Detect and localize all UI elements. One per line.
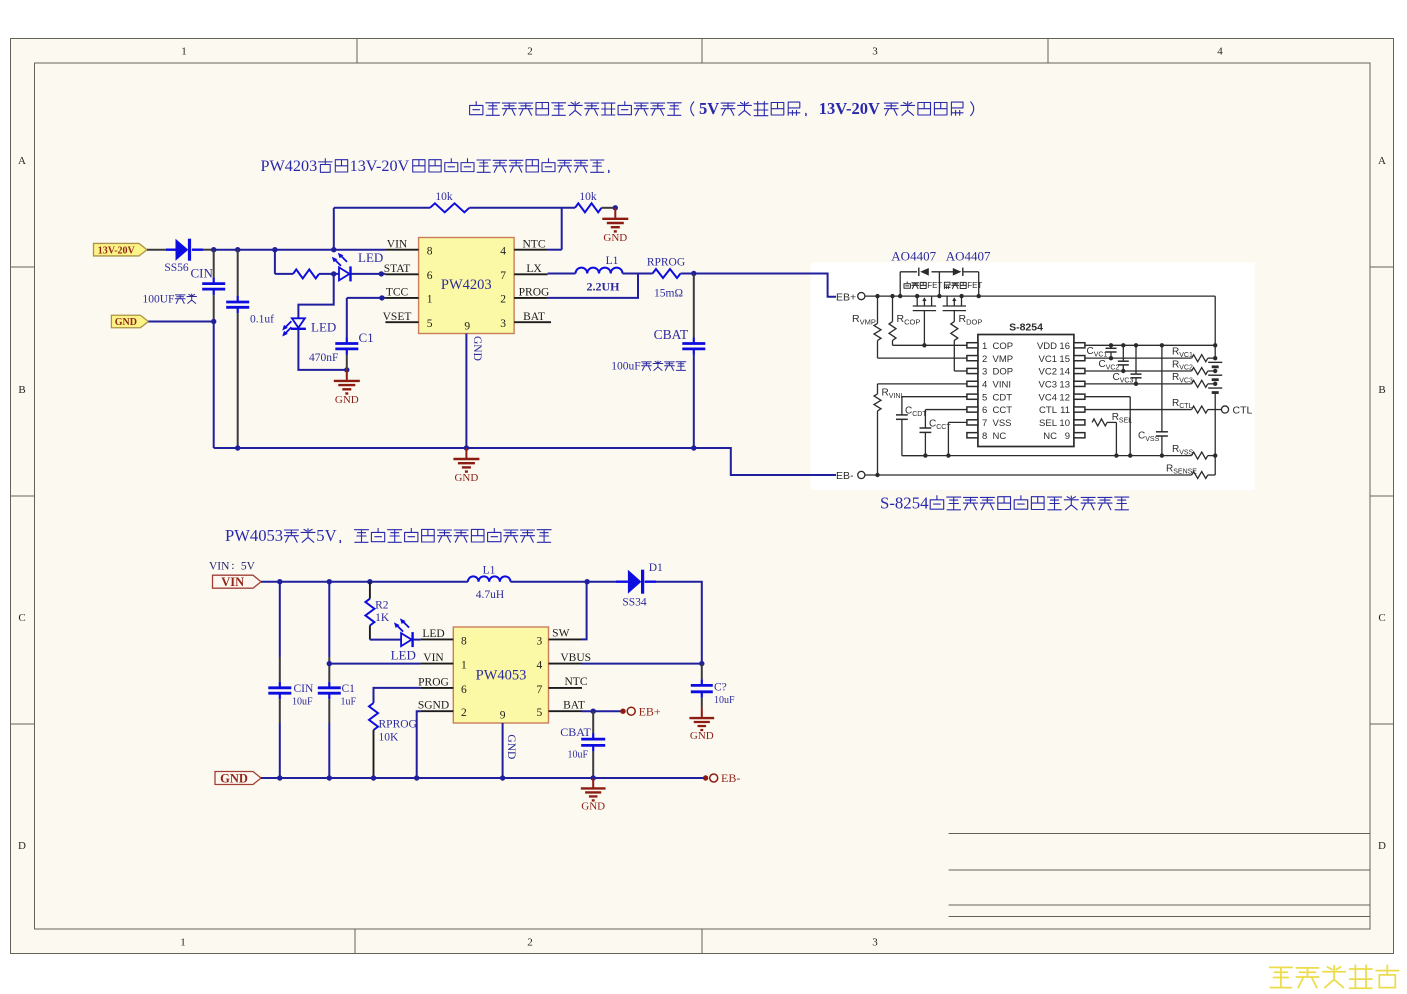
capacitor CVC1 [1087, 345, 1117, 360]
svg-text:15: 15 [1059, 354, 1070, 365]
svg-text:VC1: VC1 [1039, 354, 1057, 365]
svg-text:CTL: CTL [1233, 404, 1253, 416]
wire VBUS to node [582, 663, 702, 665]
svg-text:C1: C1 [342, 683, 356, 695]
PW4203 circuit subtitle [261, 157, 610, 175]
resistor RVINI [874, 384, 967, 477]
svg-text:NC: NC [1043, 431, 1057, 442]
svg-text:VIN: VIN [221, 575, 244, 589]
svg-text:100uF: 100uF [611, 361, 640, 373]
resistor RVC1 [1085, 347, 1217, 362]
svg-text:10uF: 10uF [714, 695, 735, 706]
svg-text:VBUS: VBUS [560, 652, 591, 664]
label 100uF电解电容 [611, 361, 686, 373]
body diode (charge FET) [919, 268, 929, 276]
svg-text:14: 14 [1059, 367, 1070, 378]
svg-text:GND: GND [581, 800, 605, 812]
wire resistor to LED [319, 271, 339, 276]
svg-text:2: 2 [500, 294, 506, 306]
svg-text:1: 1 [180, 937, 186, 949]
op-amp U1 PW4203 [419, 238, 514, 334]
svg-text:7: 7 [500, 270, 506, 282]
wire RPROG to BAT node [681, 271, 697, 276]
label 100UF电解 [143, 294, 197, 306]
wire STAT node to second LED [298, 274, 333, 318]
wire D1 to VBUS node [656, 582, 705, 667]
label 470nF [309, 352, 338, 364]
svg-text:11: 11 [1060, 405, 1070, 416]
svg-text:3: 3 [537, 635, 543, 647]
svg-text:VIN: VIN [423, 652, 444, 664]
svg-text:DOP: DOP [993, 367, 1014, 378]
resistor R2 1K [365, 582, 389, 640]
svg-text:VSS: VSS [993, 418, 1012, 429]
svg-text:VSET: VSET [383, 311, 412, 323]
PW4203 left pins VIN STAT TCC VSET [383, 238, 433, 330]
svg-text:PROG: PROG [418, 676, 449, 688]
svg-text:7: 7 [982, 418, 987, 429]
wire BAT to EB+ [582, 709, 626, 714]
wire CIN down to ground rail [213, 322, 215, 449]
label 0.1uf [250, 314, 274, 326]
wire C1 to TCC pin [347, 295, 386, 300]
capacitor CCDT [896, 397, 967, 456]
capacitor C1 [335, 298, 373, 370]
svg-text:CIN: CIN [191, 266, 214, 281]
svg-text:B: B [1378, 384, 1385, 396]
battery rail right [1213, 296, 1217, 358]
svg-text:13V-20V: 13V-20V [98, 245, 136, 256]
svg-text:GND: GND [471, 336, 483, 361]
resistor RVSS [1172, 444, 1217, 459]
svg-text:GND: GND [335, 394, 359, 406]
svg-text:PROG: PROG [519, 287, 550, 299]
body diode (discharge FET) [953, 268, 963, 276]
schematic main title [470, 99, 974, 118]
wire 0.1uf to rail junction [235, 445, 240, 450]
svg-text:CBAT: CBAT [654, 327, 689, 342]
svg-text:PW4053: PW4053 [476, 668, 527, 684]
transistor Q1 charge FET [913, 296, 936, 311]
PW4053 right pins SW VBUS NTC BAT [537, 628, 591, 720]
S-8254 right pins 9-16 [1037, 341, 1085, 442]
svg-text:9: 9 [464, 320, 470, 332]
svg-text:PW4053: PW4053 [225, 526, 283, 545]
resistor RSENSE [1166, 463, 1215, 478]
wire LED to STAT pin [352, 271, 386, 276]
ground (C1) [334, 370, 360, 406]
node CTL output [1221, 404, 1252, 416]
labels AO4407 AO4407 [891, 249, 991, 264]
resistor RVMP [852, 296, 967, 358]
svg-text:FET: FET [927, 281, 942, 290]
capacitor CBAT [654, 274, 706, 449]
LED (power) [282, 318, 336, 336]
svg-text:1: 1 [427, 294, 433, 306]
svg-text:470nF: 470nF [309, 352, 338, 364]
LED (PW4053) [391, 618, 416, 662]
svg-text:EB-: EB- [836, 470, 854, 482]
svg-text:9: 9 [1065, 431, 1070, 442]
svg-text:COP: COP [993, 341, 1014, 352]
wire VIN node down to STAT resistor [275, 250, 293, 274]
inductor L1 2.2UH [576, 255, 623, 294]
svg-text:SEL: SEL [1039, 418, 1057, 429]
wire PROG riser [374, 688, 421, 703]
resistor RPROG 10K [369, 703, 417, 778]
svg-text:LED: LED [358, 250, 383, 265]
resistor 10k (NTC pulldown) [575, 191, 602, 212]
wire VSS down [946, 422, 967, 457]
svg-text:A: A [1378, 155, 1386, 167]
wire Q1 gate to COP [923, 311, 925, 346]
PW4053 left pins LED VIN PROG SGND [418, 628, 467, 719]
svg-text:TCC: TCC [386, 287, 409, 299]
S-8254 left pins 1-8 [967, 341, 1013, 442]
resistor RVC3 [1085, 372, 1217, 387]
svg-text:2.2UH: 2.2UH [587, 280, 621, 294]
wire VC4 drop [1085, 397, 1132, 458]
capacitor C? [691, 664, 735, 708]
watermark 夸克微科技 [1270, 965, 1399, 988]
node EB- (PW4053) [710, 771, 741, 785]
svg-text:4: 4 [982, 379, 987, 390]
svg-text:C: C [18, 612, 25, 624]
svg-text:CDT: CDT [993, 392, 1013, 403]
wire SGND drop [417, 711, 421, 778]
svg-text:6: 6 [427, 270, 433, 282]
capacitor CVSS [1138, 345, 1168, 458]
node EB- [836, 470, 1192, 482]
svg-text:EB+: EB+ [836, 291, 856, 303]
svg-text:5: 5 [982, 392, 987, 403]
resistor RSEL [1092, 412, 1132, 458]
capacitor 0.1uf [226, 250, 249, 448]
svg-text:SGND: SGND [418, 700, 449, 712]
svg-text:13V-20V: 13V-20V [819, 99, 880, 118]
wire 10k to GND [602, 205, 619, 210]
capacitor CVC3 [1113, 345, 1142, 386]
svg-text:4: 4 [537, 660, 543, 672]
svg-text:D: D [18, 840, 26, 852]
inductor L1 4.7uH [468, 565, 511, 602]
svg-text:S-8254: S-8254 [880, 494, 929, 513]
wire LX to L1 [548, 273, 576, 275]
svg-text:GND: GND [690, 730, 714, 742]
svg-text:5V: 5V [241, 561, 256, 573]
wire LED to C1 node [298, 330, 349, 373]
svg-text:2: 2 [527, 46, 533, 58]
svg-text:GND: GND [220, 772, 248, 786]
svg-text:GND: GND [505, 734, 517, 759]
wire VIN rail [261, 579, 468, 584]
svg-text:S-8254: S-8254 [1009, 322, 1043, 334]
svg-text:STAT: STAT [384, 263, 411, 275]
node EB+ (PW4053) [627, 704, 661, 718]
caption S-8254 [880, 494, 1129, 513]
label VIN 5V [209, 561, 256, 573]
svg-text:NC: NC [993, 431, 1007, 442]
svg-text:1: 1 [181, 46, 187, 58]
svg-text:VC2: VC2 [1039, 367, 1057, 378]
svg-text:VIN: VIN [209, 561, 230, 573]
svg-text:3: 3 [872, 937, 878, 949]
svg-text:VMP: VMP [993, 354, 1014, 365]
resistor RVC2 [1085, 359, 1217, 374]
ground (NTC) [602, 208, 628, 244]
wire LED to LED pin [414, 639, 421, 641]
svg-text:VC3: VC3 [1039, 379, 1057, 390]
wire diode to VIN node [203, 249, 385, 251]
svg-text:CIN: CIN [294, 683, 315, 695]
svg-text:CCT: CCT [993, 405, 1013, 416]
svg-text:4: 4 [1217, 46, 1223, 58]
svg-text:GND: GND [454, 472, 478, 484]
wire L1 to RPROG [623, 273, 653, 275]
node VIN junctions [211, 247, 336, 252]
battery cells [1208, 362, 1222, 475]
wire NTC riser [548, 249, 562, 251]
svg-text:C?: C? [714, 682, 727, 694]
svg-text:VC4: VC4 [1039, 392, 1057, 403]
svg-text:0.1uf: 0.1uf [250, 314, 274, 326]
svg-text:13: 13 [1059, 379, 1070, 390]
ground rail (PW4203) [214, 445, 697, 450]
wire 13V-20V to diode [147, 249, 166, 251]
svg-text:EB-: EB- [721, 771, 740, 785]
svg-text:16: 16 [1059, 341, 1070, 352]
wire 10k to NTC riser [469, 208, 575, 250]
capacitor CBAT (PW4053) [560, 711, 605, 778]
wire GND flag to CIN [148, 319, 216, 324]
op-amp U2 S-8254 [978, 322, 1074, 447]
capacitor CIN [191, 250, 226, 322]
wire VIN node up to feedback [334, 208, 430, 250]
wire VIN pin [327, 661, 421, 666]
capacitor CIN (PW4053) [268, 582, 314, 778]
svg-text:10uF: 10uF [292, 697, 313, 708]
svg-text:BAT: BAT [523, 311, 545, 323]
svg-text:3: 3 [500, 318, 506, 330]
svg-text:LED: LED [311, 320, 336, 335]
svg-text:4.7uH: 4.7uH [476, 589, 504, 601]
LED (STAT) [332, 250, 383, 281]
svg-text:RPROG: RPROG [647, 257, 685, 269]
resistor 10k (feedback) [430, 191, 469, 212]
svg-text:5: 5 [427, 318, 433, 330]
svg-text:VDD: VDD [1037, 341, 1057, 352]
op-amp U3 PW4053 [453, 627, 548, 723]
svg-text:LED: LED [391, 648, 416, 663]
wire PROG riser [548, 274, 638, 298]
svg-text:FET: FET [967, 281, 982, 290]
svg-text:1: 1 [982, 341, 987, 352]
PW4053 circuit title [225, 526, 551, 545]
diode SS56 [164, 239, 203, 274]
svg-text:D1: D1 [649, 562, 663, 574]
resistor RCOP [889, 296, 967, 347]
svg-text:SS34: SS34 [622, 597, 647, 609]
transistor Q2 discharge FET [943, 296, 966, 311]
svg-text:2: 2 [461, 707, 467, 719]
svg-text:100UF: 100UF [143, 294, 175, 306]
svg-text:RPROG: RPROG [379, 719, 417, 731]
svg-text:NTC: NTC [523, 238, 546, 250]
svg-text:1: 1 [461, 660, 467, 672]
svg-text:5: 5 [537, 707, 543, 719]
svg-text:2: 2 [982, 354, 987, 365]
svg-text:13V-20V: 13V-20V [350, 157, 410, 175]
ground (rail) [453, 448, 479, 484]
svg-text:8: 8 [982, 431, 987, 442]
S-8254 protection circuit block (white panel) [811, 263, 1255, 491]
wire VDD line [1085, 343, 1215, 347]
PW4203 right pins NTC LX PROG BAT [500, 238, 551, 330]
wire L1 to D1 [511, 579, 617, 584]
svg-text:LX: LX [526, 263, 542, 275]
svg-text:5V: 5V [699, 99, 719, 118]
wire rail to EB- [694, 448, 836, 475]
svg-text:D: D [1378, 840, 1386, 852]
node EB+ [836, 291, 1215, 303]
PW4203 pin 9 GND [464, 320, 483, 448]
svg-text:SS56: SS56 [164, 262, 189, 274]
net label GND flag [111, 315, 148, 328]
resistor RCTL [1085, 398, 1221, 413]
svg-text:6: 6 [461, 684, 467, 696]
wire SW riser [582, 582, 587, 640]
svg-text:10: 10 [1059, 418, 1070, 429]
svg-text:1K: 1K [375, 612, 390, 624]
svg-text:3: 3 [872, 46, 878, 58]
wire BAT node to EB+ [694, 274, 836, 297]
svg-text:AO4407: AO4407 [946, 249, 991, 264]
svg-text:12: 12 [1059, 392, 1070, 403]
svg-text:PW4203: PW4203 [261, 157, 318, 175]
svg-text:L1: L1 [483, 565, 496, 577]
svg-text:LED: LED [422, 628, 444, 640]
ground rail (PW4053) [261, 775, 708, 780]
ground (CBAT rail) [581, 778, 606, 812]
svg-text:CBAT: CBAT [560, 725, 591, 739]
svg-text:VINI: VINI [993, 379, 1011, 390]
svg-text:R2: R2 [375, 600, 389, 612]
svg-text:6: 6 [982, 405, 987, 416]
svg-text:GND: GND [115, 317, 137, 328]
svg-text:10k: 10k [579, 191, 597, 203]
svg-text:5V: 5V [316, 526, 336, 545]
svg-text:C: C [1378, 612, 1385, 624]
diode D1 SS34 [616, 562, 663, 609]
svg-text:10K: 10K [379, 732, 400, 744]
svg-text:CTL: CTL [1039, 405, 1057, 416]
svg-text:8: 8 [427, 246, 433, 258]
resistor (STAT series) [293, 269, 319, 278]
resistor RPROG 15mohm [647, 257, 685, 300]
resistor RDOP [951, 311, 983, 371]
svg-text:C1: C1 [359, 330, 374, 345]
svg-text:SW: SW [552, 628, 569, 640]
svg-text:NTC: NTC [565, 676, 588, 688]
svg-text:2: 2 [527, 937, 533, 949]
capacitor CCCT [920, 410, 967, 458]
svg-text:GND: GND [603, 232, 627, 244]
net label 13V-20V flag [94, 243, 148, 256]
svg-text:3: 3 [982, 367, 987, 378]
svg-text:AO4407: AO4407 [891, 249, 936, 264]
svg-text:1uF: 1uF [341, 697, 357, 708]
wire R2 to LED [370, 639, 401, 641]
svg-text:10uF: 10uF [568, 750, 589, 761]
svg-text:8: 8 [461, 635, 467, 647]
svg-text:A: A [18, 155, 26, 167]
svg-text:BAT: BAT [563, 699, 585, 711]
FET body-diode enclosure [900, 272, 979, 296]
svg-text:B: B [18, 384, 25, 396]
capacitor CVC2 [1099, 345, 1129, 373]
svg-text:7: 7 [537, 684, 543, 696]
svg-text:VIN: VIN [387, 238, 408, 250]
label 充电用FET [904, 281, 942, 290]
svg-text:10k: 10k [435, 191, 453, 203]
svg-text:EB+: EB+ [639, 704, 661, 718]
net label GND flag (PW4053) [215, 772, 261, 786]
capacitor C1 (PW4053) [318, 582, 357, 778]
PW4053 pin 9 GND [500, 710, 517, 781]
svg-text:PW4203: PW4203 [441, 277, 492, 293]
ground (C?) [689, 708, 714, 742]
svg-text:4: 4 [500, 246, 506, 258]
svg-text:15mΩ: 15mΩ [654, 288, 683, 300]
label 放电用FET [944, 281, 982, 290]
wire bottom VSS line [902, 455, 1192, 457]
svg-text:9: 9 [500, 710, 506, 722]
svg-text:L1: L1 [606, 255, 619, 267]
net label VIN flag [213, 575, 262, 589]
